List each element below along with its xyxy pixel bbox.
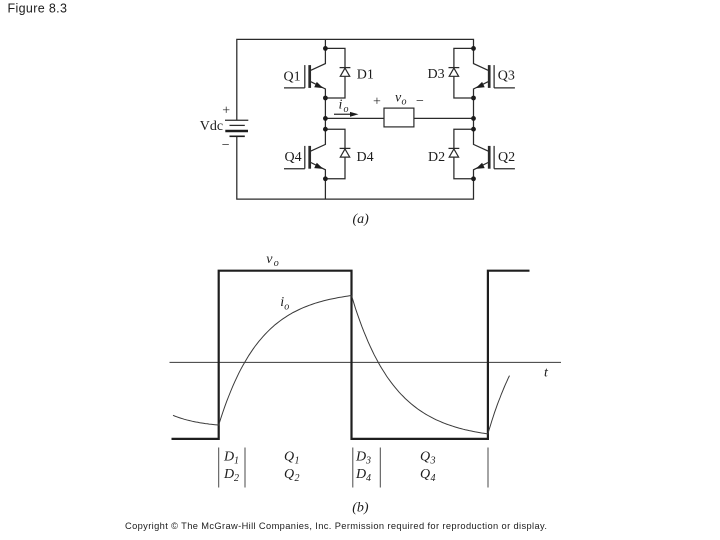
svg-text:v: v: [266, 252, 273, 267]
svg-text:D: D: [223, 450, 234, 465]
svg-text:−: −: [416, 94, 424, 109]
svg-text:4: 4: [366, 473, 371, 484]
svg-text:Q2: Q2: [498, 150, 515, 165]
svg-text:D2: D2: [428, 150, 445, 165]
svg-text:Q1: Q1: [284, 70, 301, 85]
svg-text:Q: Q: [420, 467, 430, 482]
svg-text:Q: Q: [420, 450, 430, 465]
svg-text:D: D: [355, 467, 366, 482]
svg-text:1: 1: [234, 456, 239, 467]
svg-text:3: 3: [430, 456, 436, 467]
svg-text:3: 3: [365, 456, 371, 467]
svg-text:D: D: [223, 467, 234, 482]
svg-text:(a): (a): [353, 212, 370, 227]
svg-text:+: +: [222, 104, 230, 119]
svg-text:4: 4: [431, 473, 436, 484]
svg-text:2: 2: [295, 473, 300, 484]
svg-text:Figure 8.3: Figure 8.3: [8, 1, 68, 15]
svg-text:1: 1: [295, 456, 300, 467]
svg-text:Q4: Q4: [285, 150, 302, 165]
svg-text:Q3: Q3: [498, 68, 515, 83]
svg-text:i: i: [339, 98, 343, 113]
svg-text:+: +: [373, 95, 381, 110]
svg-text:Q: Q: [284, 450, 294, 465]
svg-text:o: o: [344, 104, 349, 115]
svg-text:D1: D1: [357, 68, 374, 83]
svg-text:D3: D3: [428, 67, 445, 82]
svg-text:D: D: [355, 450, 366, 465]
svg-text:o: o: [274, 258, 279, 269]
svg-text:o: o: [284, 302, 289, 313]
svg-text:2: 2: [234, 473, 239, 484]
svg-text:o: o: [402, 97, 407, 108]
svg-text:Copyright © The McGraw-Hill Co: Copyright © The McGraw-Hill Companies, I…: [125, 521, 547, 531]
svg-text:−: −: [222, 138, 230, 153]
svg-text:(b): (b): [352, 500, 369, 515]
svg-text:Vdc: Vdc: [200, 119, 223, 134]
svg-text:D4: D4: [357, 150, 374, 165]
svg-text:Q: Q: [284, 467, 294, 482]
